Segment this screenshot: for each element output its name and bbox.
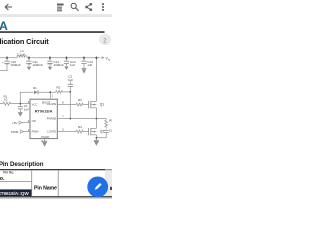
capacitor C13 xyxy=(66,58,68,61)
svg-text:1uF: 1uF xyxy=(24,108,29,112)
table top border xyxy=(0,169,105,170)
diode D1 triangle xyxy=(34,90,38,94)
PGND stub xyxy=(44,139,46,141)
svg-text:8: 8 xyxy=(62,100,64,104)
package name cell dark band xyxy=(0,189,31,196)
ground under C13 xyxy=(64,67,68,70)
overflow dots xyxy=(102,3,104,11)
+5V connector arrow xyxy=(19,121,22,124)
diode D1 cathode bar xyxy=(37,90,39,94)
junction C10 tap xyxy=(6,56,8,59)
Q2 drain rail xyxy=(95,119,97,129)
junction Q2 source node xyxy=(96,137,98,139)
svg-text:VCC: VCC xyxy=(32,102,38,106)
col1 sub header border xyxy=(0,181,32,183)
VCC input wire with resistor R1 xyxy=(0,103,3,105)
capacitor C14 xyxy=(83,58,85,61)
ground under C14 xyxy=(82,69,86,74)
phase rail between Q1 and Q2 xyxy=(95,108,97,119)
svg-text:Q2: Q2 xyxy=(100,130,105,134)
transistor Q1 xyxy=(88,101,90,108)
svg-text:LGATE: LGATE xyxy=(47,130,56,134)
svg-text:1000uF: 1000uF xyxy=(33,63,43,67)
resistor R4 xyxy=(76,130,88,133)
junction C13 tap xyxy=(66,56,68,59)
ground under Q2 xyxy=(94,141,99,146)
doc icon xyxy=(57,4,64,12)
boot pin stub xyxy=(49,92,51,99)
svg-text:7: 7 xyxy=(62,114,64,118)
junction C11 tap xyxy=(28,56,30,59)
FAB button xyxy=(87,177,108,198)
svg-text:2.2uH: 2.2uH xyxy=(17,53,25,57)
svg-text:Pin Description: Pin Description xyxy=(0,161,44,168)
junction C2 boot node xyxy=(69,91,71,93)
svg-text:3: 3 xyxy=(28,119,30,123)
transistor Q2 xyxy=(88,128,90,135)
PWM input wire xyxy=(24,131,31,133)
junction C14 tap xyxy=(83,56,85,59)
junction phase-rail node xyxy=(96,118,98,120)
small cut element at right edge xyxy=(110,187,112,190)
junction BOOT pin node xyxy=(49,91,51,93)
top bus wire xyxy=(0,57,17,59)
viewer background right margin xyxy=(105,170,112,197)
svg-text:lication Circuit: lication Circuit xyxy=(0,37,49,46)
capacitor C10 xyxy=(6,58,8,61)
resistor R3 xyxy=(76,103,88,106)
svg-text:Pin Name: Pin Name xyxy=(34,185,57,191)
junction VCC node xyxy=(19,103,21,105)
svg-text:1000uF: 1000uF xyxy=(54,63,64,67)
VIN arrowhead xyxy=(102,56,105,59)
Q2 arrow xyxy=(92,131,95,133)
junction VIN rail tap xyxy=(96,56,98,59)
svg-text:R5: R5 xyxy=(109,119,112,123)
svg-text:1uF: 1uF xyxy=(68,78,73,82)
toolbar band separator xyxy=(0,14,112,17)
page indicator chip "2" xyxy=(99,34,111,45)
back arrow xyxy=(5,4,12,10)
+5V input wire xyxy=(22,122,30,124)
bootstrap cap C2 xyxy=(69,81,71,84)
ground under PGND xyxy=(42,142,47,147)
capacitor C12 xyxy=(49,58,51,61)
svg-text:PGND: PGND xyxy=(41,135,49,139)
ground under C11 xyxy=(27,67,31,70)
table vertical border col1/col2 xyxy=(31,170,33,196)
Q1 arrow xyxy=(92,104,95,106)
boot wire xyxy=(38,91,55,93)
capacitor C1 xyxy=(19,104,21,107)
capacitor C11 xyxy=(28,58,30,61)
ground under C12 xyxy=(48,67,52,70)
svg-text:10: 10 xyxy=(4,98,8,102)
svg-text:C5: C5 xyxy=(109,129,112,133)
svg-text:IN: IN xyxy=(108,59,111,61)
svg-text:Q1: Q1 xyxy=(100,103,105,107)
title underline rule xyxy=(0,31,105,33)
vertical from boot node down to phase xyxy=(69,87,71,119)
circuit labels xyxy=(2,49,113,143)
junction phase-C2 node xyxy=(69,118,71,120)
svg-text:1uF: 1uF xyxy=(70,63,75,67)
svg-text:D1: D1 xyxy=(33,86,37,90)
search icon xyxy=(71,3,79,11)
svg-text:+: + xyxy=(2,60,4,64)
top bus wire right of L1 xyxy=(27,57,100,59)
svg-text:Pin No.: Pin No. xyxy=(3,171,14,175)
junction C12 tap xyxy=(49,56,51,59)
svg-text:2: 2 xyxy=(103,38,107,44)
IC box RT9618/A xyxy=(30,99,57,138)
ground under C1 xyxy=(18,113,22,117)
svg-text:PWM: PWM xyxy=(11,130,19,134)
svg-text:1uF: 1uF xyxy=(87,63,92,67)
svg-text:RT9618/A: RT9618/A xyxy=(35,109,53,114)
VIN rail xyxy=(95,58,97,101)
svg-text:OD: OD xyxy=(32,119,36,123)
svg-text:R4: R4 xyxy=(78,125,82,129)
table bottom border / page edge xyxy=(0,196,112,197)
ground arrows xyxy=(18,56,104,146)
inductor L1 xyxy=(17,56,27,58)
viewer background bottom strip xyxy=(0,197,112,199)
Q2 source to ground xyxy=(95,135,97,140)
svg-text:UGATE: UGATE xyxy=(47,102,57,106)
UGATE wire xyxy=(57,104,76,106)
table vertical border col2/col3 xyxy=(57,170,59,196)
svg-text:R2: R2 xyxy=(57,86,61,90)
svg-text:1000uF: 1000uF xyxy=(11,63,21,67)
svg-text:A: A xyxy=(0,19,8,33)
svg-text:6: 6 xyxy=(28,100,30,104)
svg-text:PHASE: PHASE xyxy=(47,116,57,120)
resistor R2 xyxy=(56,91,71,94)
FAB pencil icon xyxy=(94,183,102,191)
svg-text:R3: R3 xyxy=(78,98,82,102)
PWM connector arrow xyxy=(21,130,24,133)
LGATE wire xyxy=(57,131,76,133)
share icon xyxy=(85,3,92,11)
svg-text:PWM: PWM xyxy=(32,130,40,134)
svg-text:RT9618/A□QW: RT9618/A□QW xyxy=(0,191,29,196)
svg-text:5: 5 xyxy=(62,127,64,131)
snubber cap C15 xyxy=(104,129,109,131)
svg-text:2: 2 xyxy=(28,128,30,132)
svg-text:No.: No. xyxy=(0,176,5,182)
svg-text:1: 1 xyxy=(52,93,54,97)
snubber resistor R5 xyxy=(105,119,107,120)
svg-text:+5V: +5V xyxy=(12,121,17,125)
riser to diode xyxy=(20,92,33,103)
PHASE wire xyxy=(57,118,106,120)
